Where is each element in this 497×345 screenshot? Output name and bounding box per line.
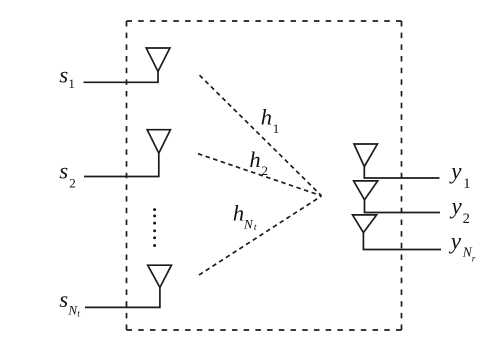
svg-text:1: 1 bbox=[463, 176, 470, 192]
svg-text:1: 1 bbox=[68, 76, 75, 91]
svg-text:N: N bbox=[243, 217, 254, 232]
svg-text:r: r bbox=[472, 254, 476, 264]
svg-text:y: y bbox=[449, 159, 462, 184]
svg-text:2: 2 bbox=[463, 211, 470, 227]
svg-text:s: s bbox=[59, 62, 68, 87]
svg-text:h: h bbox=[249, 147, 260, 172]
svg-text:h: h bbox=[261, 105, 272, 130]
svg-text:t: t bbox=[254, 223, 257, 233]
svg-text:1: 1 bbox=[273, 121, 280, 136]
svg-text:2: 2 bbox=[262, 163, 269, 178]
svg-text:y: y bbox=[449, 228, 462, 253]
svg-text:y: y bbox=[450, 194, 463, 219]
svg-text:s: s bbox=[59, 159, 68, 184]
svg-text:t: t bbox=[77, 310, 80, 320]
svg-text:h: h bbox=[233, 201, 244, 226]
svg-text:2: 2 bbox=[69, 175, 76, 190]
svg-text:s: s bbox=[59, 287, 68, 312]
